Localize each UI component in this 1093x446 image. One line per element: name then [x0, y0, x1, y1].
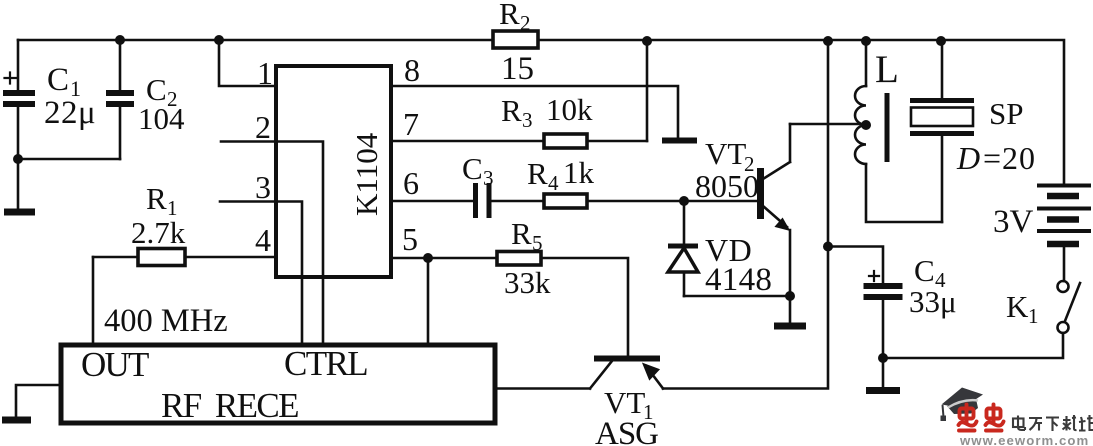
diode VD	[668, 201, 698, 296]
node SP top	[936, 36, 946, 46]
wire top rail right	[538, 40, 1064, 184]
wire top rail left	[18, 39, 493, 42]
resistor R4	[544, 194, 587, 208]
svg-text:C: C	[47, 62, 69, 98]
node VD top	[679, 196, 689, 206]
transistor VT2	[761, 124, 791, 296]
node R3 rail	[642, 36, 652, 46]
wire pin7	[391, 140, 647, 143]
svg-text:15: 15	[501, 51, 534, 87]
ground (emitter)	[774, 296, 806, 326]
svg-text:10k: 10k	[546, 92, 593, 127]
label R2 15	[499, 0, 534, 87]
wire pin3	[220, 202, 302, 346]
label RF RECE	[161, 386, 298, 425]
svg-text:R: R	[527, 156, 548, 191]
label OUT	[81, 345, 149, 384]
svg-text:K: K	[1006, 289, 1029, 324]
node pin1 rail	[214, 35, 224, 45]
wire pin8	[391, 86, 678, 138]
label C3	[462, 151, 494, 190]
svg-text:2.7k: 2.7k	[131, 215, 186, 250]
svg-text:6: 6	[403, 165, 419, 201]
label K1104	[349, 132, 384, 216]
wire pin1 from rail	[219, 40, 276, 86]
svg-text:R: R	[146, 181, 167, 216]
speaker SP	[910, 41, 974, 222]
svg-text:VT: VT	[705, 136, 746, 171]
label 3V	[993, 204, 1034, 240]
pin 8	[404, 52, 420, 88]
label C4 33u	[909, 253, 957, 319]
node C2 top	[115, 35, 125, 45]
svg-text:R: R	[499, 0, 520, 31]
node C4 top	[823, 242, 833, 252]
wire pin5	[391, 258, 628, 356]
svg-text:C: C	[914, 253, 935, 288]
wire pin2	[221, 142, 323, 346]
svg-text:L: L	[875, 48, 899, 91]
label R3 10k	[501, 92, 593, 132]
resistor R5	[497, 252, 541, 266]
switch K1	[883, 281, 1080, 358]
svg-text:3: 3	[483, 166, 494, 190]
pin 6	[403, 165, 419, 201]
IC U1 K1104	[276, 66, 391, 277]
capacitor C3	[476, 183, 490, 218]
capacitor C4	[828, 247, 903, 359]
svg-text:R: R	[501, 93, 522, 128]
svg-text:3: 3	[255, 169, 271, 205]
box RF RECE	[61, 345, 495, 423]
svg-text:4148: 4148	[705, 262, 772, 298]
pin 7	[403, 106, 419, 142]
wire collector to L tap	[790, 123, 866, 126]
node C1 bottom	[13, 154, 23, 164]
label VT2 8050	[695, 136, 759, 204]
pin 3	[255, 169, 271, 205]
svg-text:400 MHz: 400 MHz	[104, 303, 228, 339]
label VD 4148	[705, 232, 772, 298]
pin 1	[257, 55, 273, 91]
svg-text:K1104: K1104	[349, 132, 384, 216]
ground (C1)	[4, 159, 35, 212]
svg-text:D: D	[956, 140, 980, 176]
ground (pin8)	[662, 138, 697, 144]
cap mortarboard	[942, 388, 984, 409]
svg-text:R: R	[511, 216, 532, 251]
watermark logo	[941, 388, 1093, 446]
ground (C4)	[866, 358, 900, 391]
svg-text:8050: 8050	[695, 168, 759, 204]
wire box left to ground	[16, 385, 61, 417]
capacitor C1	[3, 40, 35, 159]
label SP D=20	[956, 96, 1036, 176]
battery 3V	[1037, 186, 1091, 282]
arrow VT1 emitter	[643, 364, 659, 380]
svg-text:ASG: ASG	[595, 416, 658, 446]
svg-text:4: 4	[548, 171, 559, 195]
wire right vertical rail x828	[663, 41, 828, 389]
svg-text:5: 5	[402, 221, 418, 257]
svg-text:www.eeworm.com: www.eeworm.com	[959, 433, 1089, 446]
node x828 rail	[823, 36, 833, 46]
svg-text:5: 5	[532, 231, 543, 255]
resistor R1	[93, 249, 276, 346]
svg-text:3: 3	[522, 108, 533, 132]
arrow VT2 emitter	[776, 219, 790, 231]
svg-text:22μ: 22μ	[44, 95, 96, 131]
ground (box left)	[2, 417, 31, 424]
red 虫虫	[959, 405, 1004, 431]
svg-text:RF RECE: RF RECE	[161, 386, 298, 425]
svg-text:1: 1	[1028, 304, 1039, 328]
svg-text:2: 2	[520, 11, 531, 35]
svg-text:7: 7	[403, 106, 419, 142]
svg-text:SP: SP	[989, 96, 1023, 131]
transistor VT1	[495, 359, 663, 389]
label R4 1k	[527, 155, 595, 195]
svg-text:1: 1	[257, 55, 273, 91]
label C1 22u	[44, 62, 96, 131]
svg-text:33k: 33k	[504, 265, 551, 300]
node pin5	[423, 253, 433, 263]
pin 5	[402, 221, 418, 257]
label R5 33k	[504, 216, 551, 300]
svg-text:VT: VT	[604, 385, 645, 420]
label K1	[1006, 289, 1039, 328]
svg-text:C: C	[462, 151, 483, 186]
wire VD to emitter node	[684, 295, 790, 298]
inductor L	[855, 41, 942, 222]
node L tap	[861, 120, 871, 130]
label VT1 ASG	[595, 385, 658, 446]
svg-text:CTRL: CTRL	[284, 344, 367, 383]
node C4 bottom	[878, 353, 888, 363]
label C2 104	[138, 72, 185, 136]
resistor R3	[544, 134, 587, 148]
svg-text:3V: 3V	[993, 204, 1034, 240]
resistor R2	[493, 31, 538, 48]
node L top	[861, 36, 871, 46]
label R1 2.7k	[131, 181, 186, 250]
svg-text:104: 104	[138, 101, 185, 136]
svg-text:33μ: 33μ	[909, 284, 957, 319]
label 400 MHz	[104, 303, 228, 339]
svg-text:=20: =20	[983, 140, 1036, 176]
wire pin6	[391, 200, 758, 203]
svg-text:2: 2	[255, 109, 271, 145]
pin 2	[255, 109, 271, 145]
label CTRL	[284, 344, 367, 383]
pin 4	[255, 222, 271, 258]
svg-text:4: 4	[255, 222, 271, 258]
black 电子下载站	[1013, 415, 1093, 431]
label L	[875, 48, 899, 91]
svg-text:8: 8	[404, 52, 420, 88]
svg-text:1k: 1k	[563, 155, 595, 190]
svg-text:OUT: OUT	[81, 345, 149, 384]
capacitor C2	[106, 40, 134, 159]
wire rail drop to R3	[646, 41, 649, 141]
wire C1-C2 bottom	[18, 158, 120, 161]
node emitter	[785, 291, 795, 301]
